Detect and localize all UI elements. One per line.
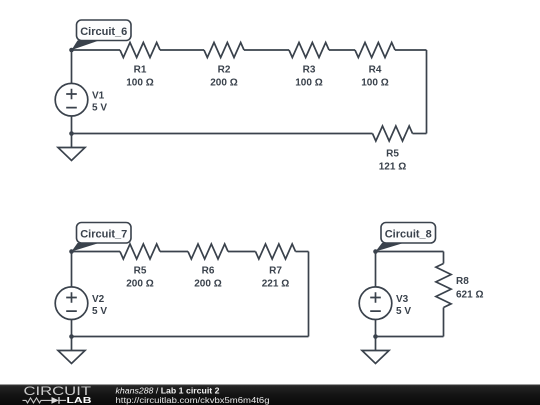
svg-text:R1: R1 bbox=[134, 65, 147, 76]
svg-text:5 V: 5 V bbox=[92, 103, 107, 114]
voltage source V2 bbox=[55, 287, 88, 320]
node junction V2 bottom bbox=[69, 334, 74, 339]
wire corner to R5 bbox=[413, 133, 427, 135]
wire R6 to R7 bbox=[228, 251, 256, 253]
wire R4 to right corner bbox=[395, 49, 427, 51]
wire R3 to R4 bbox=[329, 49, 355, 51]
logo diode bbox=[52, 397, 67, 404]
wire R2 to R3 bbox=[244, 49, 289, 51]
wire R1 to R2 bbox=[160, 49, 204, 51]
svg-text:100 Ω: 100 Ω bbox=[361, 78, 388, 89]
wire to ground bbox=[71, 134, 73, 149]
net flag Circuit_7 bbox=[72, 223, 132, 252]
wire right vertical circuit 2 bbox=[308, 252, 310, 337]
svg-text:200 Ω: 200 Ω bbox=[210, 78, 237, 89]
node junction V1 bottom bbox=[69, 131, 74, 136]
node Circuit_7 bbox=[69, 249, 74, 254]
svg-text:V1: V1 bbox=[92, 91, 105, 102]
wire node to V2 top bbox=[71, 252, 73, 288]
resistor R8 bbox=[436, 264, 451, 308]
wire right vertical bbox=[426, 50, 428, 134]
voltage source V3 bbox=[359, 287, 392, 320]
svg-text:621 Ω: 621 Ω bbox=[456, 290, 483, 301]
wire R8 top lead bbox=[443, 252, 445, 264]
wire node to V3 top bbox=[375, 252, 377, 288]
resistor R4 bbox=[355, 43, 395, 58]
node Circuit_8 bbox=[373, 249, 378, 254]
svg-text:khans288 / Lab 1 circuit 2: khans288 / Lab 1 circuit 2 bbox=[116, 386, 221, 395]
resistor R3 bbox=[289, 43, 329, 58]
wire top net from node Circuit_7 to R5 bbox=[72, 251, 121, 253]
net flag Circuit_6 bbox=[72, 20, 132, 50]
wire top net from node Circuit_8 to R8 bbox=[376, 251, 444, 253]
svg-text:R4: R4 bbox=[369, 65, 382, 76]
ground bbox=[58, 148, 85, 161]
svg-text:100 Ω: 100 Ω bbox=[126, 78, 153, 89]
resistor R7 bbox=[256, 244, 296, 259]
svg-text:R5: R5 bbox=[386, 149, 399, 160]
node junction V3 bottom bbox=[373, 334, 378, 339]
wire bottom net circuit 3 bbox=[376, 336, 444, 338]
svg-text:V2: V2 bbox=[92, 294, 105, 305]
svg-text:R3: R3 bbox=[303, 65, 316, 76]
wire R5 to R6 bbox=[160, 251, 188, 253]
svg-text:200 Ω: 200 Ω bbox=[126, 279, 153, 290]
svg-text:Circuit_7: Circuit_7 bbox=[80, 229, 127, 241]
resistor R5 (121) bbox=[373, 126, 413, 141]
wire R7 to right corner bbox=[296, 251, 309, 253]
logo resistor squiggle bbox=[23, 398, 52, 403]
wire V3 bottom to node bbox=[375, 320, 377, 337]
svg-text:5 V: 5 V bbox=[396, 306, 411, 317]
resistor R1 bbox=[120, 43, 160, 58]
svg-text:V3: V3 bbox=[396, 294, 409, 305]
wire top net from node Circuit_6 to R1 bbox=[72, 49, 121, 51]
net flag Circuit_8 bbox=[376, 223, 436, 252]
wire bottom net to V1 bbox=[72, 133, 373, 135]
wire node to V1 top bbox=[71, 50, 73, 84]
wire to ground circuit 2 bbox=[71, 337, 73, 352]
resistor R5 (200) bbox=[120, 244, 160, 259]
svg-text:http://circuitlab.com/ckvbx5m6: http://circuitlab.com/ckvbx5m6m4t6g bbox=[116, 396, 270, 405]
node Circuit_6 bbox=[69, 48, 74, 53]
svg-text:Circuit_6: Circuit_6 bbox=[80, 26, 127, 38]
svg-text:R6: R6 bbox=[202, 266, 215, 277]
svg-text:Circuit_8: Circuit_8 bbox=[385, 229, 432, 241]
wire to ground circuit 3 bbox=[375, 337, 377, 352]
svg-text:5 V: 5 V bbox=[92, 306, 107, 317]
svg-text:R5: R5 bbox=[134, 266, 147, 277]
wire V1 bottom to node bbox=[71, 116, 73, 134]
svg-text:121 Ω: 121 Ω bbox=[379, 162, 406, 173]
ground circuit 2 bbox=[58, 351, 85, 364]
svg-text:R8: R8 bbox=[456, 276, 469, 287]
svg-text:LAB: LAB bbox=[67, 396, 92, 405]
ground circuit 3 bbox=[362, 351, 389, 364]
wire R8 bottom lead bbox=[443, 308, 445, 337]
voltage source V1 bbox=[55, 83, 88, 116]
wire bottom net circuit 2 bbox=[72, 336, 309, 338]
svg-text:200 Ω: 200 Ω bbox=[194, 279, 221, 290]
resistor R2 bbox=[204, 43, 244, 58]
svg-text:221 Ω: 221 Ω bbox=[262, 279, 289, 290]
wire V2 bottom to node bbox=[71, 320, 73, 337]
resistor R6 bbox=[188, 244, 228, 259]
svg-text:R7: R7 bbox=[269, 266, 282, 277]
svg-text:100 Ω: 100 Ω bbox=[295, 78, 322, 89]
svg-text:R2: R2 bbox=[218, 65, 231, 76]
